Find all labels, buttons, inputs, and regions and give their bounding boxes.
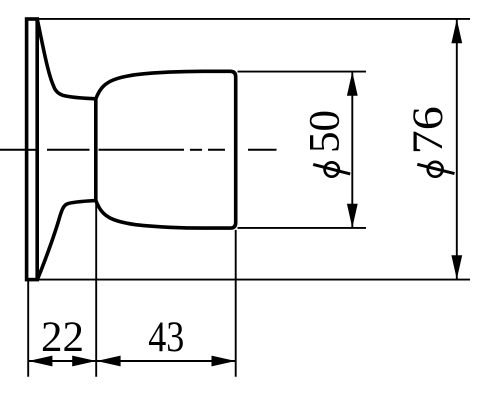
neck bottom profile xyxy=(37,201,96,280)
extension line phi50 top xyxy=(238,71,367,73)
svg-text:50: 50 xyxy=(302,110,349,153)
dimension line phi76 xyxy=(456,19,458,279)
phi symbol for 76 xyxy=(428,162,443,177)
dimension line 43 xyxy=(97,360,236,362)
knob back face xyxy=(94,99,98,201)
svg-text:22: 22 xyxy=(41,314,84,361)
extension line 22 left xyxy=(27,281,29,377)
centerline (axis) xyxy=(0,149,277,151)
arrowhead 22 right xyxy=(72,356,96,367)
arrowhead phi50 up xyxy=(347,72,358,96)
extension line phi76 bottom xyxy=(38,279,470,281)
dimension line phi50 xyxy=(351,72,353,228)
arrowhead 43 right xyxy=(212,356,236,367)
arrowhead phi76 up xyxy=(451,19,462,43)
arrowhead phi50 down xyxy=(347,204,358,228)
extension line 43 right xyxy=(235,230,237,377)
neck top profile xyxy=(37,19,96,99)
flange outline xyxy=(27,19,38,280)
extension line phi50 bottom xyxy=(238,227,367,229)
arrowhead 22 left xyxy=(28,356,52,367)
svg-text:43: 43 xyxy=(148,314,184,361)
svg-text:76: 76 xyxy=(405,106,452,154)
phi symbol for 50 xyxy=(325,162,339,176)
extension line 22/43 middle xyxy=(95,202,97,377)
extension line phi76 top xyxy=(38,18,470,20)
knob body outline xyxy=(96,71,236,228)
dimension line 22 xyxy=(28,360,96,362)
arrowhead phi76 down xyxy=(451,255,462,279)
arrowhead 43 left xyxy=(97,356,121,367)
